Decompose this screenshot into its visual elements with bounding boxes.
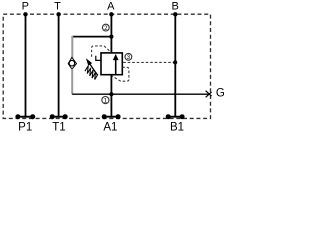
node drain rail junction dot on A lower line [109, 92, 113, 96]
svg-text:A1: A1 [103, 121, 117, 133]
svg-text:A: A [107, 0, 115, 12]
node pilot-B junction dot [173, 60, 177, 64]
svg-text:2: 2 [104, 25, 108, 32]
wire drain rail to G [72, 93, 208, 95]
enclosure dashed border [3, 14, 210, 118]
svg-text:P: P [22, 0, 29, 12]
port T1 marker [50, 114, 68, 119]
wire A line lower (valve drain to A1) [110, 74, 112, 116]
svg-text:P1: P1 [18, 121, 32, 133]
port B1 marker [166, 114, 185, 119]
node B junction dot [173, 12, 177, 16]
svg-text:B: B [172, 0, 179, 12]
balloon 1 [102, 97, 109, 104]
svg-text:G: G [216, 87, 225, 99]
wire T line vertical [58, 14, 60, 116]
relief valve U1 body [101, 53, 122, 75]
balloon 2 [102, 24, 109, 31]
wire P line vertical [25, 14, 27, 116]
relief valve U1 flow arrow [115, 59, 117, 75]
svg-text:T1: T1 [52, 121, 65, 133]
port P1 marker [15, 114, 35, 119]
pilot line dashed to B [123, 61, 174, 63]
node P junction dot [23, 12, 27, 16]
node branch junction dot on A line [109, 35, 113, 39]
node A junction dot [109, 12, 113, 16]
check valve V1 diamond [68, 57, 76, 69]
wire branch vertical upper [71, 36, 73, 58]
node T junction dot [56, 12, 60, 16]
spring S1 zigzag [85, 66, 98, 80]
wire B line vertical [174, 14, 176, 116]
svg-text:T: T [54, 0, 61, 12]
pilot line dashed upper-left loop [92, 46, 112, 57]
wire branch vertical lower [71, 69, 73, 94]
wire A line upper [110, 14, 112, 53]
balloon 3 [125, 53, 132, 60]
check valve V1 ball [69, 60, 75, 65]
svg-text:B1: B1 [170, 121, 184, 133]
arrow head at G port [206, 91, 212, 96]
adjustment arrow shaft [89, 63, 97, 74]
port A1 marker [102, 114, 121, 119]
svg-text:1: 1 [104, 98, 108, 105]
spring connector elbow [96, 56, 101, 61]
pilot line dashed lower-right loop [112, 67, 129, 81]
adjustment arrow head [86, 58, 92, 65]
wire branch horizontal to check valve [72, 36, 111, 38]
svg-text:3: 3 [127, 54, 131, 61]
